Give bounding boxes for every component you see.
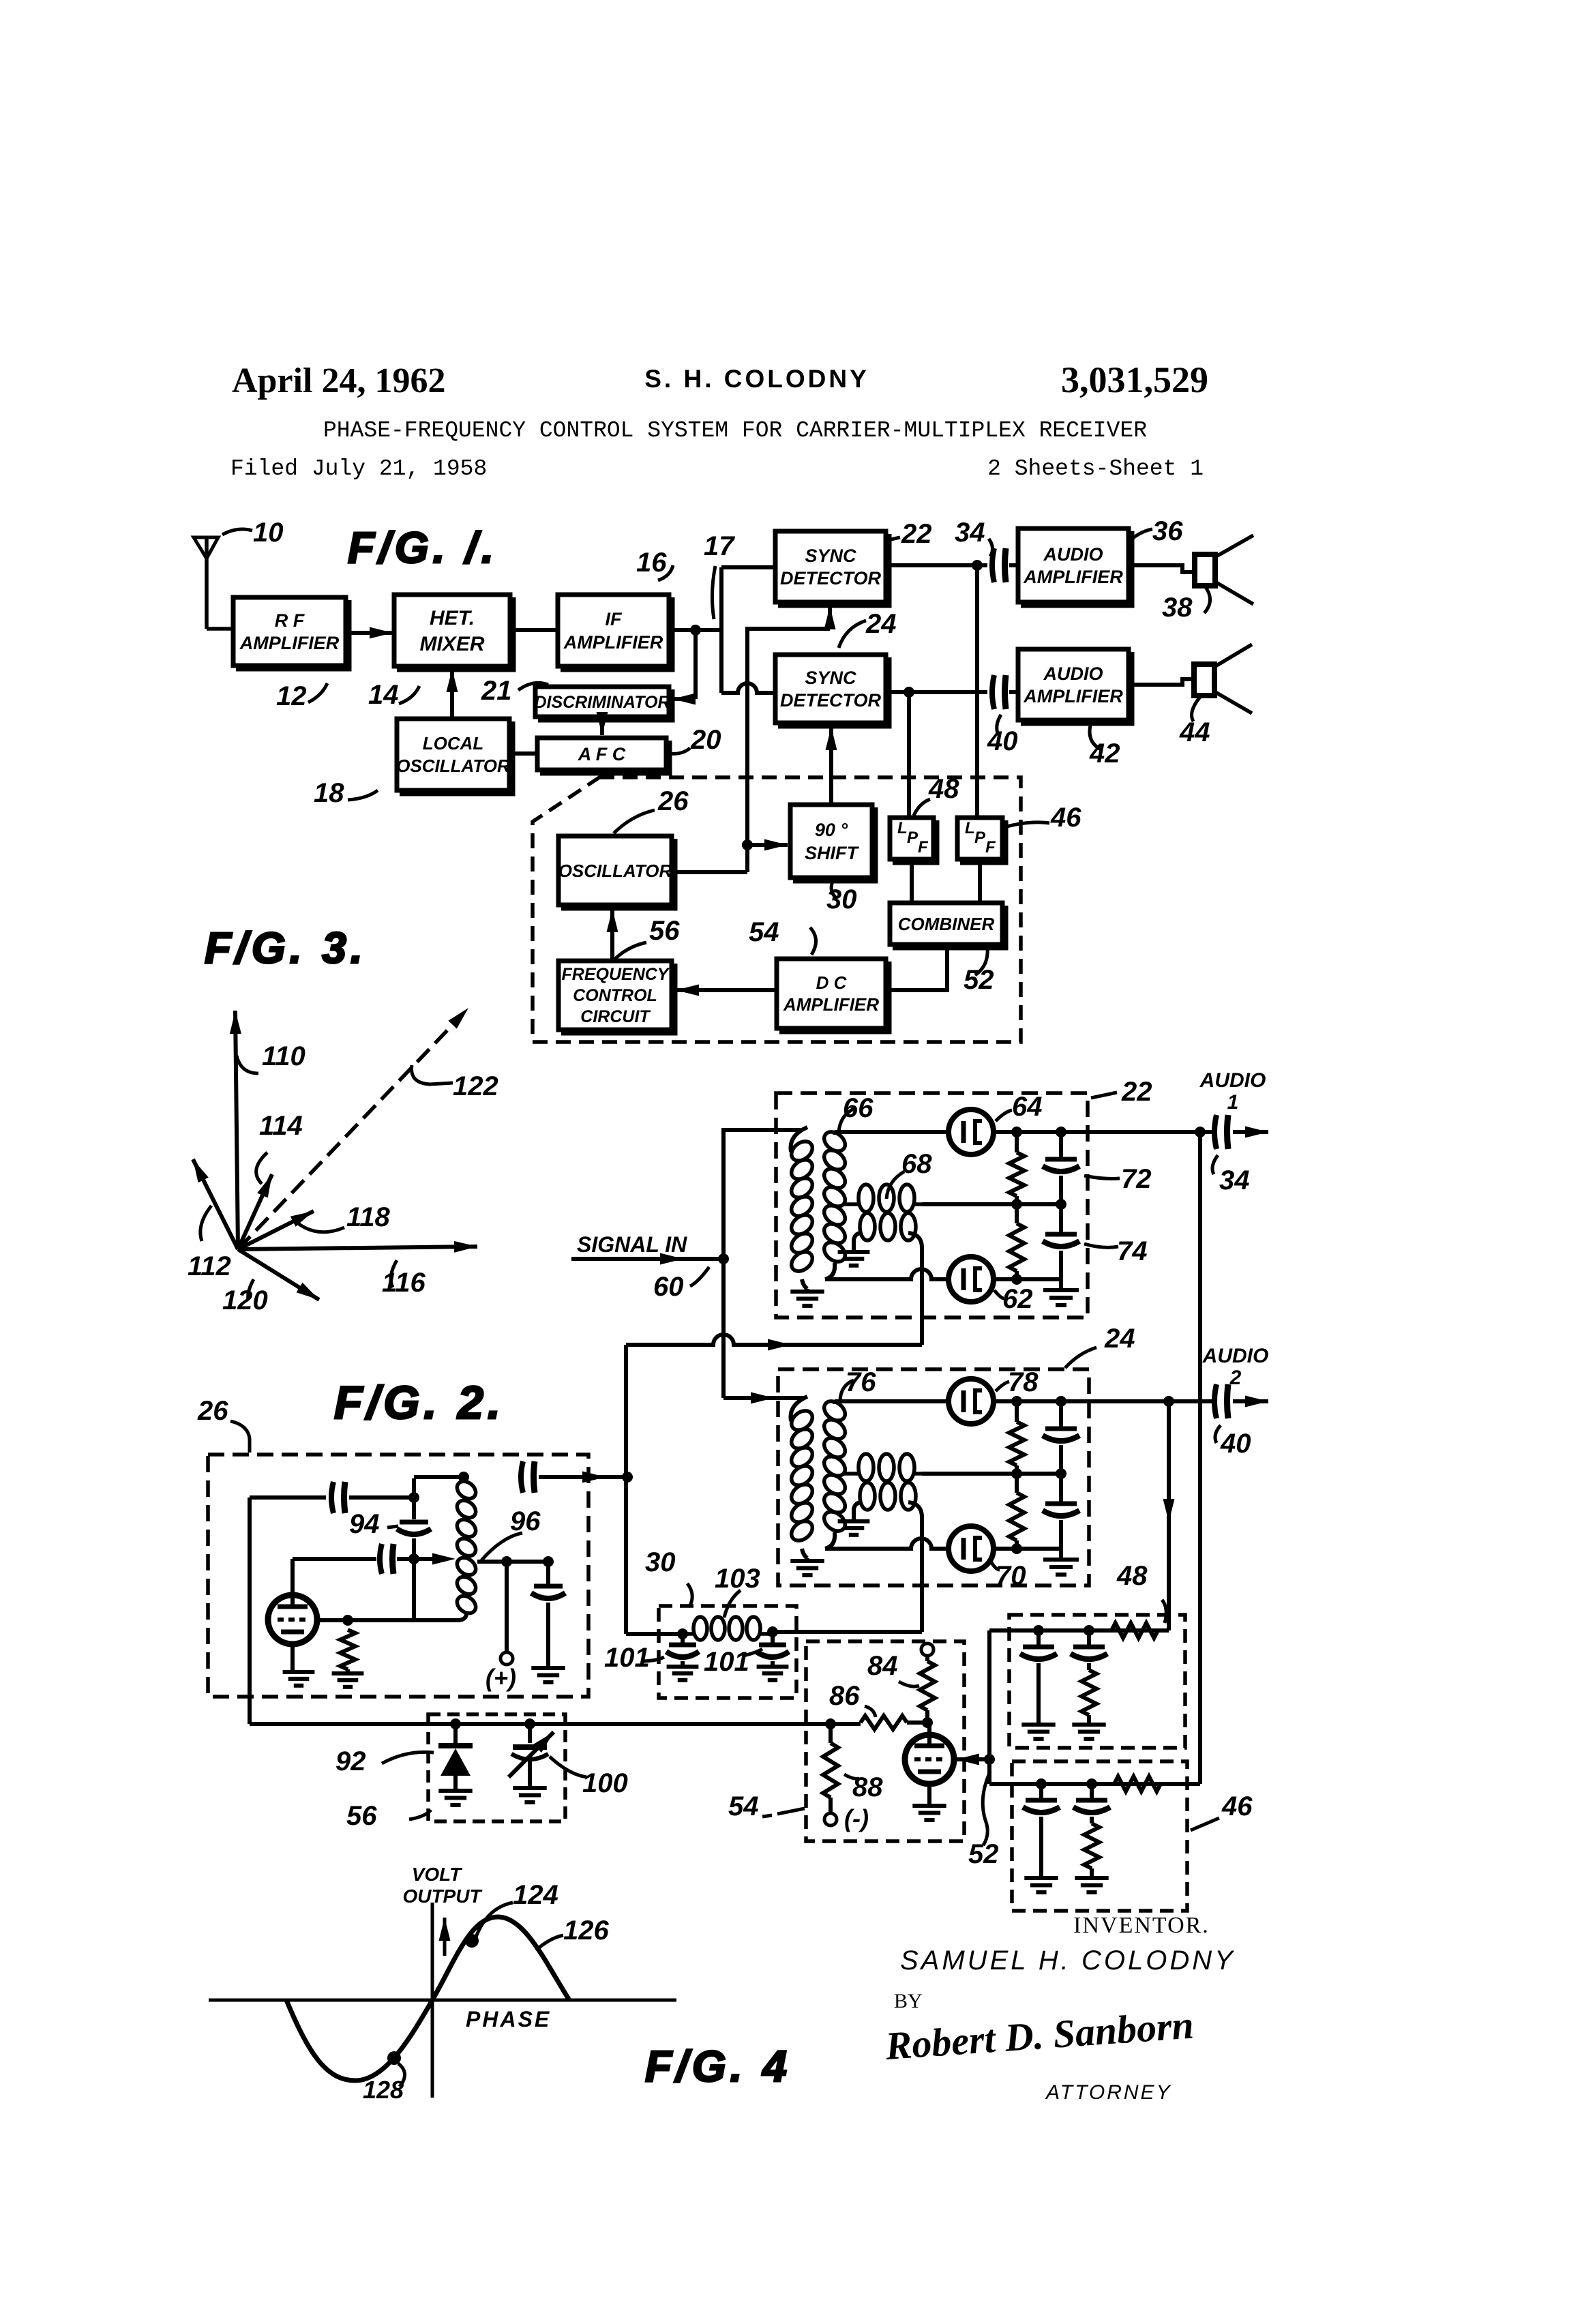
svg-text:64: 64 — [1012, 1092, 1043, 1122]
junction capacitor column top (det 22) — [1056, 1127, 1066, 1137]
filter series resistor R48 (filter 48) — [1111, 1623, 1158, 1638]
point 128 on curve — [387, 2051, 401, 2065]
transformer primary winding 76 (det 24) — [791, 1397, 808, 1421]
arrow into sync22 bottom — [828, 606, 832, 629]
svg-text:88: 88 — [852, 1772, 883, 1802]
wire plate rail 62 (det 22) — [994, 1277, 1061, 1281]
svg-text:F/G. 4: F/G. 4 — [645, 2042, 791, 2091]
svg-text:17: 17 — [704, 531, 735, 561]
wire center-tap to RC midpoint (det 24) — [922, 1472, 1061, 1476]
svg-text:SHIFT: SHIFT — [805, 843, 860, 863]
svg-text:40: 40 — [987, 726, 1018, 756]
filter shunt capacitor C48a (filter 48) — [1036, 1630, 1041, 1645]
label 101 right leader — [743, 1649, 762, 1656]
svg-text:70: 70 — [996, 1561, 1026, 1591]
label 48 fig2 leader — [1162, 1600, 1166, 1623]
svg-text:78: 78 — [1008, 1367, 1039, 1397]
svg-text:F/G. /.: F/G. /. — [348, 523, 498, 572]
wire amp42 to speaker — [1129, 679, 1194, 685]
label 40 leader — [997, 715, 1001, 735]
svg-text:116: 116 — [382, 1268, 426, 1298]
svg-text:38: 38 — [1162, 593, 1193, 623]
svg-text:126: 126 — [563, 1916, 609, 1946]
signal in arrow — [571, 1257, 683, 1261]
label 17 leader — [712, 566, 715, 619]
junction grid-tank cross — [408, 1553, 419, 1564]
label 118 leader — [298, 1223, 344, 1232]
svg-text:L: L — [897, 819, 908, 837]
svg-text:F/G. 2.: F/G. 2. — [334, 1377, 505, 1429]
label 56 fig2 leader — [409, 1810, 431, 1819]
junction to 90 shift — [742, 839, 753, 850]
filter top wire (filter 48) — [989, 1628, 1169, 1633]
svg-text:21: 21 — [481, 676, 512, 706]
svg-text:DISCRIMINATOR: DISCRIMINATOR — [534, 693, 670, 712]
label 36 leader — [1132, 529, 1152, 539]
label 88 leader — [844, 1774, 859, 1778]
wire secondary to tube 78 (det 24) — [835, 1399, 949, 1403]
svg-text:103: 103 — [715, 1564, 760, 1594]
junction resistor column top (det 24) — [1011, 1396, 1022, 1407]
svg-text:128: 128 — [363, 2076, 404, 2104]
tube 62 (det 22) — [949, 1257, 994, 1302]
wire LPF46 to combiner — [978, 859, 982, 903]
label 12 leader — [308, 683, 327, 702]
svg-text:60: 60 — [653, 1272, 684, 1302]
capacitor 101 right — [771, 1634, 775, 1643]
wire local osc to AFC — [509, 751, 537, 756]
block local oscillator 18 — [397, 719, 509, 790]
svg-text:96: 96 — [510, 1506, 541, 1536]
coil 103 — [693, 1617, 707, 1640]
fig4 x axis — [209, 1999, 676, 2002]
capacitor lower C24b (det 24) — [1059, 1474, 1063, 1504]
svg-text:IF: IF — [606, 609, 623, 629]
svg-text:90 °: 90 ° — [815, 820, 848, 840]
svg-text:CIRCUIT: CIRCUIT — [580, 1007, 651, 1026]
svg-text:26: 26 — [657, 786, 689, 816]
label 56 leader — [614, 942, 646, 960]
junction on sync24 output — [904, 687, 914, 698]
label 26 leader — [614, 810, 655, 833]
svg-text:Filed July 21, 1958: Filed July 21, 1958 — [230, 456, 487, 481]
wire ref to det24 coil — [920, 1519, 924, 1632]
svg-text:D C: D C — [816, 972, 848, 993]
label 16 leader — [658, 565, 673, 580]
svg-text:P: P — [974, 829, 986, 847]
dashed enclosure FIG1 AFC loop — [533, 777, 1021, 1042]
label 54 leader — [810, 927, 816, 955]
wire secondary to tube 70 (det 24) — [825, 1538, 949, 1549]
block LPF 48 — [890, 818, 934, 859]
svg-text:66: 66 — [843, 1093, 874, 1123]
block 90 degree shift 30 — [790, 805, 872, 878]
signal junction — [718, 1253, 729, 1264]
capacitor 101 left — [681, 1634, 685, 1643]
label 48 leader — [914, 799, 930, 816]
block AFC 20 — [537, 738, 666, 770]
label 122 leader — [412, 1065, 453, 1084]
terminal plus osc — [501, 1652, 513, 1665]
osc top wire with cap — [414, 1475, 464, 1479]
speaker 38 — [1195, 554, 1215, 586]
svg-text:30: 30 — [826, 884, 857, 914]
junction RC midpoint capacitor (det 22) — [1056, 1199, 1066, 1210]
label 126 leader — [536, 1935, 563, 1950]
svg-text:FREQUENCY: FREQUENCY — [562, 965, 670, 984]
label 52 leader — [975, 948, 987, 975]
svg-text:18: 18 — [314, 778, 344, 808]
svg-text:26: 26 — [197, 1396, 228, 1426]
capacitor lower 74 (det 22) — [1059, 1204, 1063, 1234]
junction on sync22 output — [972, 560, 983, 571]
wire node to sync detectors vertical — [719, 567, 723, 693]
combined output vertical wire — [987, 1630, 991, 1784]
junction RC midpoint capacitor (det 24) — [1056, 1468, 1066, 1479]
svg-text:DETECTOR: DETECTOR — [780, 568, 882, 589]
svg-text:F/G. 3.: F/G. 3. — [205, 923, 367, 972]
capacitor 34 — [992, 548, 994, 582]
dashed box varactor 56 — [428, 1714, 565, 1821]
block RF amplifier 12 — [233, 597, 346, 666]
resistor upper R24a (det 24) — [1015, 1401, 1019, 1422]
block sync detector 22 — [775, 531, 886, 602]
label 10 leader — [222, 529, 252, 535]
label 46 fig2 leader — [1191, 1818, 1219, 1830]
block audio amplifier 36 — [1018, 528, 1129, 602]
block oscillator 26 — [558, 836, 672, 905]
osc grid cap — [293, 1557, 376, 1561]
osc cathode resistor — [340, 1630, 355, 1669]
wire tube82 cathode to ground — [927, 1784, 931, 1804]
varicap junction — [524, 1718, 535, 1729]
osc tube cathode ground — [290, 1644, 295, 1671]
label 100 leader — [550, 1757, 586, 1777]
svg-text:(+): (+) — [486, 1664, 516, 1692]
svg-text:AUDIO: AUDIO — [1043, 544, 1103, 565]
svg-text:2: 2 — [1229, 1367, 1242, 1389]
vector 110 vertical — [235, 1011, 238, 1249]
svg-text:10: 10 — [253, 518, 284, 548]
label 64 leader — [996, 1110, 1012, 1121]
label 94 leader — [387, 1526, 398, 1528]
center-tap coil 24a (det 24) — [844, 1472, 861, 1476]
transformer secondary winding 66 (det 22) — [820, 1128, 849, 1155]
wire signal up to transformer 66 — [723, 1130, 801, 1259]
audio2 branch down with arrow — [1167, 1401, 1171, 1630]
svg-text:40: 40 — [1220, 1429, 1251, 1459]
audio 2 capacitor 40 — [1214, 1384, 1217, 1418]
capacitor 40 — [992, 675, 994, 709]
junction at coil 103 output — [767, 1626, 778, 1637]
svg-text:112: 112 — [188, 1251, 231, 1281]
svg-text:68: 68 — [901, 1149, 932, 1179]
wire plate rail 78 (det 24) — [994, 1399, 1214, 1403]
osc tube plate wire — [316, 1618, 414, 1622]
svg-text:SYNC: SYNC — [805, 668, 856, 688]
block DC amplifier 54 — [777, 959, 886, 1028]
label 24 leader — [839, 621, 866, 648]
speaker 44 — [1194, 664, 1214, 696]
junction grid node — [922, 1717, 933, 1728]
label 30 fig2 leader — [687, 1583, 692, 1605]
center-tap coil 68a (det 22) — [844, 1202, 861, 1206]
label 21 leader — [518, 683, 548, 690]
svg-text:92: 92 — [335, 1746, 366, 1776]
svg-text:AUDIO: AUDIO — [1043, 664, 1103, 684]
osc coil bottom curve — [457, 1613, 466, 1620]
wire oscillator line horizontal — [626, 1335, 764, 1345]
svg-text:(-): (-) — [844, 1804, 869, 1832]
label 62 leader — [994, 1290, 1004, 1298]
svg-text:SYNC: SYNC — [805, 546, 856, 566]
junction filter cap1 (filter 48) — [1033, 1625, 1044, 1636]
tube 78 (det 24) — [949, 1379, 994, 1424]
label 34 leader — [989, 539, 993, 556]
label 40 fig2 leader — [1215, 1425, 1221, 1443]
wire sync24out down to LPF48 — [907, 692, 911, 818]
wire secondary to tube 64 (det 22) — [835, 1130, 949, 1134]
svg-text:120: 120 — [222, 1285, 268, 1315]
svg-text:3,031,529: 3,031,529 — [1061, 359, 1208, 400]
label 68 leader — [886, 1172, 904, 1199]
dashed box phase network 30 — [659, 1606, 796, 1698]
svg-text:122: 122 — [453, 1071, 498, 1101]
reference coil 24b (det 24) — [854, 1502, 862, 1520]
junction audio2 — [1163, 1396, 1174, 1407]
svg-text:94: 94 — [349, 1509, 380, 1539]
label 116 leader — [391, 1260, 397, 1287]
wire LPF48 to combiner — [910, 859, 914, 903]
dashed box oscillator 26 — [208, 1455, 588, 1697]
tube 70 (det 24) — [949, 1526, 994, 1571]
svg-text:74: 74 — [1117, 1236, 1148, 1266]
junction resistor column bottom (det 24) — [1011, 1543, 1022, 1554]
svg-text:LOCAL: LOCAL — [423, 733, 484, 754]
svg-text:F: F — [918, 838, 929, 856]
svg-text:46: 46 — [1221, 1791, 1253, 1821]
svg-text:R F: R F — [275, 610, 305, 631]
wire to sync detector 24 with hop — [721, 683, 775, 693]
wire sync22 output — [886, 563, 987, 567]
label 72 leader — [1084, 1176, 1120, 1179]
junction audio1 — [1195, 1127, 1206, 1137]
wire cap34 to audio amp — [1009, 563, 1018, 567]
junction resistor column top (det 22) — [1011, 1127, 1022, 1137]
svg-text:F: F — [985, 838, 996, 856]
varactor junction — [450, 1718, 461, 1729]
wire to sync detector 22 — [721, 565, 775, 569]
label 96 leader — [481, 1533, 522, 1560]
resistor upper R22a (det 22) — [1015, 1132, 1019, 1152]
wire discriminator to AFC with arrow — [600, 717, 604, 735]
capacitor upper 72 (det 22) — [1059, 1132, 1063, 1159]
label 22 fig2 leader — [1091, 1092, 1117, 1098]
label 86 leader — [865, 1706, 876, 1717]
svg-text:S. H. COLODNY: S. H. COLODNY — [644, 365, 869, 393]
node 17 junction — [690, 625, 701, 636]
label 70 leader — [990, 1560, 1000, 1570]
svg-text:52: 52 — [968, 1839, 999, 1869]
svg-text:L: L — [965, 819, 975, 837]
arrow into coil tap — [432, 1553, 456, 1565]
svg-text:INVENTOR.: INVENTOR. — [1073, 1913, 1210, 1938]
label 44 leader — [1192, 697, 1200, 721]
vector 120 — [238, 1249, 319, 1300]
wire RF to mixer with arrow — [346, 631, 393, 635]
svg-text:AMPLIFIER: AMPLIFIER — [239, 633, 340, 653]
wire to plus terminal — [505, 1562, 509, 1653]
filter shunt RC C48b (filter 48) — [1087, 1630, 1091, 1645]
svg-text:OUTPUT: OUTPUT — [402, 1886, 483, 1907]
audio 2 arrow out — [1233, 1399, 1268, 1403]
audio1 bus down — [1198, 1132, 1202, 1784]
capacitor upper C24a (det 24) — [1059, 1401, 1063, 1429]
label 52 fig2 leader — [983, 1772, 990, 1845]
label 20 leader — [670, 748, 690, 754]
svg-text:48: 48 — [928, 774, 959, 804]
junction capacitor column top (det 24) — [1056, 1396, 1066, 1407]
block audio amplifier 42 — [1018, 649, 1129, 720]
junction tank top-left — [408, 1492, 419, 1503]
svg-text:84: 84 — [867, 1651, 898, 1681]
svg-text:AUDIO: AUDIO — [1199, 1069, 1266, 1092]
svg-text:SAMUEL H. COLODNY: SAMUEL H. COLODNY — [900, 1946, 1236, 1976]
fig4 y axis — [431, 1903, 434, 2098]
dashed box DC amplifier 54 — [806, 1641, 964, 1841]
svg-text:SIGNAL IN: SIGNAL IN — [577, 1232, 687, 1257]
transformer primary winding 66 (det 22) — [791, 1127, 808, 1152]
svg-text:30: 30 — [645, 1547, 676, 1577]
audio 1 arrow out — [1233, 1130, 1268, 1134]
svg-text:OSCILLATOR: OSCILLATOR — [558, 861, 672, 881]
svg-text:42: 42 — [1089, 739, 1120, 769]
fig4 up arrow — [443, 1918, 447, 1956]
osc tube — [268, 1595, 317, 1644]
label 74 leader — [1084, 1244, 1118, 1247]
wire node to discriminator with arrow — [693, 630, 698, 699]
svg-text:PHASE-FREQUENCY CONTROL SYSTEM: PHASE-FREQUENCY CONTROL SYSTEM FOR CARRI… — [323, 418, 1147, 443]
dashed box filter 46 — [1012, 1761, 1187, 1911]
block sync detector 24 — [775, 655, 886, 723]
svg-text:56: 56 — [346, 1801, 377, 1831]
svg-text:AMPLIFIER: AMPLIFIER — [563, 632, 663, 653]
wire into 90 shift with arrow — [747, 843, 788, 847]
label 18 leader — [348, 790, 378, 800]
svg-text:101: 101 — [704, 1647, 749, 1677]
label 26 fig2 leader — [230, 1421, 250, 1452]
svg-text:VOLT: VOLT — [412, 1864, 463, 1885]
tube 64 (det 22) — [949, 1109, 994, 1154]
svg-text:44: 44 — [1179, 717, 1210, 747]
wire freq control to oscillator with arrow — [610, 909, 614, 961]
varactor diode 92 — [453, 1724, 458, 1743]
block heterodyne mixer 14 — [394, 595, 510, 666]
svg-text:54: 54 — [749, 917, 779, 947]
svg-text:72: 72 — [1121, 1164, 1152, 1194]
junction resistor 88 — [825, 1718, 836, 1729]
block combiner 52 — [890, 903, 1002, 944]
svg-text:62: 62 — [1002, 1284, 1033, 1314]
svg-text:34: 34 — [955, 518, 985, 548]
filter top wire (filter 46) — [989, 1782, 1200, 1786]
svg-text:118: 118 — [346, 1202, 391, 1232]
svg-text:20: 20 — [690, 725, 721, 755]
label 24 fig2 leader — [1065, 1347, 1096, 1368]
svg-text:24: 24 — [865, 609, 897, 639]
svg-text:100: 100 — [582, 1768, 628, 1798]
svg-text:PHASE: PHASE — [466, 2007, 551, 2031]
wire local osc to mixer with arrow — [450, 669, 454, 719]
wire plate rail 64 (det 22) — [994, 1130, 1214, 1134]
block discriminator 21 — [535, 687, 669, 717]
svg-text:76: 76 — [846, 1367, 876, 1397]
ground under capacitor column (det 24) — [1059, 1549, 1063, 1560]
label 110 leader — [237, 1056, 258, 1073]
resistor lower R22b (det 22) — [1015, 1204, 1019, 1223]
label 42 leader — [1090, 723, 1102, 750]
wire sync24 output — [886, 690, 987, 694]
junction filter cap2 (filter 46) — [1086, 1778, 1097, 1789]
svg-text:114: 114 — [259, 1111, 303, 1141]
junction coil103 left — [677, 1628, 688, 1639]
label 30 leader — [831, 880, 837, 899]
resistor lower R24b (det 24) — [1015, 1474, 1019, 1493]
junction resistor column bottom (det 22) — [1011, 1274, 1022, 1285]
label 92 leader — [382, 1752, 434, 1763]
label 54 fig2 leader — [777, 1808, 805, 1814]
svg-text:A F C: A F C — [578, 744, 626, 764]
label 78 leader — [996, 1382, 1009, 1391]
wire oscillator line vertical — [624, 1345, 628, 1634]
filter shunt RC C46b (filter 46) — [1090, 1784, 1094, 1799]
svg-text:52: 52 — [964, 965, 994, 995]
svg-text:HET.: HET. — [430, 607, 475, 629]
svg-text:AUDIO: AUDIO — [1202, 1345, 1269, 1367]
label 124 leader — [475, 1903, 513, 1941]
label 34 fig2 leader — [1212, 1155, 1218, 1174]
label 84 leader — [899, 1682, 919, 1686]
wire cap40 to audio amp — [1009, 690, 1018, 694]
svg-text:BY: BY — [894, 1990, 923, 2012]
varicap 100 — [528, 1724, 532, 1743]
label 76 leader — [840, 1380, 854, 1402]
transformer secondary winding 76 (det 24) — [820, 1397, 849, 1425]
dashed box filter 48 — [1009, 1615, 1185, 1748]
svg-text:86: 86 — [829, 1681, 860, 1711]
svg-text:110: 110 — [262, 1041, 305, 1071]
svg-text:COMBINER: COMBINER — [898, 914, 995, 934]
filter series resistor R46 (filter 46) — [1114, 1776, 1161, 1791]
wire oscillator up to sync22 with hop — [747, 629, 830, 686]
block frequency control circuit 56 — [558, 961, 672, 1030]
svg-text:16: 16 — [636, 548, 667, 578]
svg-text:24: 24 — [1104, 1324, 1135, 1354]
svg-text:22: 22 — [1121, 1077, 1152, 1107]
wire amp36 to speaker — [1129, 565, 1195, 572]
svg-text:14: 14 — [368, 680, 399, 710]
svg-text:56: 56 — [649, 916, 680, 946]
junction filter cap2 (filter 48) — [1084, 1625, 1094, 1636]
svg-text:22: 22 — [901, 519, 932, 549]
label 38 leader — [1204, 587, 1210, 613]
osc feedback cap — [250, 1495, 326, 1500]
reference coil 68b (det 22) — [854, 1233, 862, 1251]
junction combiner output — [984, 1754, 995, 1765]
svg-text:AMPLIFIER: AMPLIFIER — [1023, 686, 1123, 706]
svg-text:1: 1 — [1227, 1091, 1239, 1114]
wire plate rail 70 (det 24) — [994, 1547, 1061, 1551]
